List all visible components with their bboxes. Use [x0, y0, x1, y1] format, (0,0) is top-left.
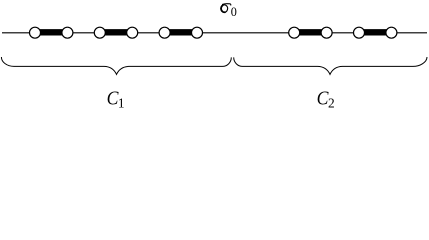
- svg-text:2: 2: [328, 95, 335, 110]
- underbrace C2: [234, 57, 427, 74]
- bond bar 5: [359, 29, 391, 35]
- node circle 6: [192, 27, 203, 38]
- node circle 7: [289, 27, 300, 38]
- bond bar 3: [165, 29, 197, 35]
- svg-text:1: 1: [118, 95, 125, 110]
- node circle 8: [321, 27, 332, 38]
- svg-text:0: 0: [231, 5, 237, 19]
- node circle 5: [159, 27, 170, 38]
- node circle 1: [30, 27, 41, 38]
- node circle 2: [62, 27, 73, 38]
- node circle 10: [386, 27, 397, 38]
- node circle 3: [94, 27, 105, 38]
- bond bar 1: [35, 29, 67, 35]
- label sigma_0: [221, 5, 228, 13]
- wire: main horizontal line: [2, 32, 427, 34]
- underbrace C1: [1, 57, 231, 74]
- node circle 9: [354, 27, 365, 38]
- bond bar 4: [294, 29, 326, 35]
- bond bar 2: [100, 29, 132, 35]
- node circle 4: [127, 27, 138, 38]
